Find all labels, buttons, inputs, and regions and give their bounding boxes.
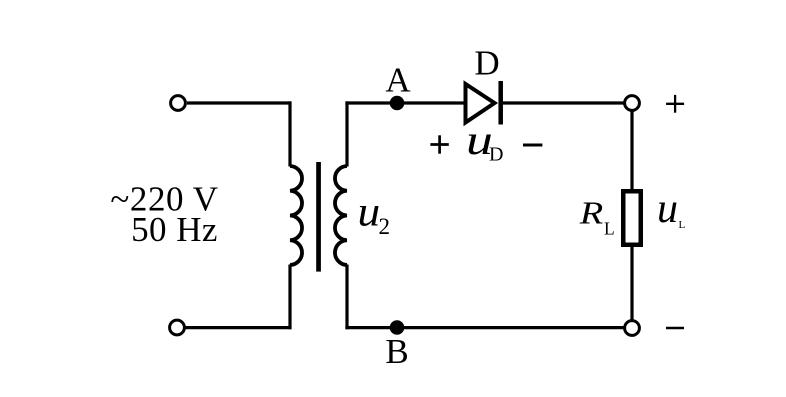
svg-text:D: D [474,44,499,83]
svg-text:2: 2 [379,214,391,239]
resistor RL [623,191,641,245]
terminal bottom-left [170,320,185,335]
node B [390,320,405,335]
label + (output) [666,103,684,105]
transformer core [316,162,321,272]
wire right bottom vertical [630,245,633,321]
svg-text:50 Hz: 50 Hz [131,210,218,249]
label + (anode) [430,143,448,146]
svg-text:u: u [358,189,381,235]
terminal bottom-right [625,321,640,336]
transformer secondary winding [335,166,347,265]
wire bottom from secondary to node B to terminal [345,326,624,329]
node A [390,96,405,111]
svg-text:L: L [679,219,686,231]
transformer primary winding [290,166,302,265]
wire diode to top-right terminal [502,101,625,104]
terminal top-left [171,96,186,111]
label - (cathode) [523,144,542,147]
svg-text:A: A [385,60,411,99]
wire top from secondary to diode [345,101,465,104]
wire secondary top vertical [345,101,348,166]
svg-text:D: D [489,144,503,166]
svg-text:B: B [385,332,408,371]
wire top-left horizontal [187,101,292,104]
wire primary top vertical [288,101,291,166]
terminal top-right [625,96,640,111]
wire bottom-left horizontal [186,326,292,329]
diode D [466,84,495,123]
svg-text:u: u [657,186,678,232]
svg-text:L: L [604,219,615,239]
wire right top vertical [630,111,633,192]
wire primary bottom vertical [288,265,291,330]
label - (output) [666,327,684,330]
svg-text:R: R [579,196,604,231]
diode cathode bar [498,81,503,125]
wire secondary bottom vertical [345,265,348,330]
